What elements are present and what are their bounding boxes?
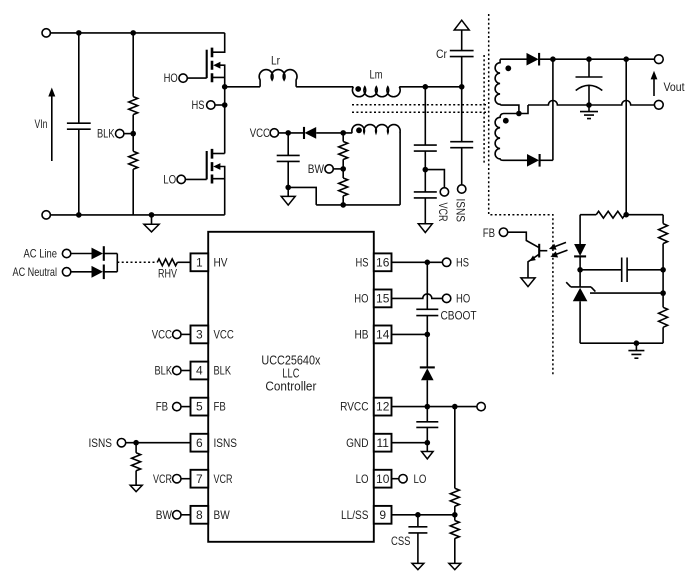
svg-text:3: 3: [196, 328, 203, 342]
terminal FB pin5: [173, 402, 181, 410]
wire FB bottom: [580, 342, 663, 344]
svg-text:10: 10: [376, 472, 390, 486]
diode LED opto: [574, 215, 586, 270]
terminal BW pin8: [173, 511, 181, 519]
svg-text:Lr: Lr: [271, 54, 280, 68]
wire aux bottom: [316, 204, 400, 206]
node LED cathode: [577, 267, 583, 273]
svg-text:RHV: RHV: [158, 267, 177, 281]
transistor Q2 low-side MOSFET: [185, 149, 224, 215]
svg-text:9: 9: [379, 508, 386, 522]
wire BLK pin4: [181, 370, 191, 372]
terminal ISNS left: [117, 439, 125, 447]
svg-text:12: 12: [376, 400, 390, 414]
capacitor VCR upper: [414, 87, 437, 192]
terminal VCR pin7: [173, 475, 181, 483]
terminal HO drive: [179, 74, 187, 82]
node A rectified top: [550, 56, 556, 62]
node ref right: [660, 290, 666, 296]
terminal FB opto: [499, 228, 507, 236]
drain: [212, 33, 225, 52]
svg-text:HV: HV: [214, 255, 228, 269]
node top-cap junction: [76, 30, 82, 36]
terminal BLK pin4: [173, 366, 181, 374]
terminal HS sense: [207, 101, 215, 109]
resistor FB divider lower: [659, 307, 668, 343]
wire FB supply vertical: [625, 59, 627, 215]
pin 8 BW box: [191, 506, 209, 524]
node FB top wire: [623, 212, 629, 218]
node resonant cap tap: [423, 84, 429, 90]
svg-text:GND: GND: [346, 436, 369, 450]
svg-text:BW: BW: [156, 508, 173, 522]
node output cap top: [586, 56, 592, 62]
node CSS branch: [415, 512, 421, 518]
node bottom-ground junction: [149, 212, 155, 218]
capacitor ISNS: [450, 87, 473, 185]
node VCC cap junction: [285, 130, 291, 136]
node comp cap right: [660, 267, 666, 273]
resistor BW lower: [339, 178, 348, 205]
node output cap bottom: [586, 102, 592, 108]
svg-text:BLK: BLK: [97, 127, 115, 141]
inductor Lm: [352, 87, 400, 97]
node HS sense: [222, 102, 228, 108]
transistor opto phototransistor: [508, 232, 548, 278]
isolation boundary dashed: [489, 14, 553, 375]
svg-text:VCR: VCR: [214, 472, 233, 486]
pin 12 RVCC box: [374, 398, 392, 416]
svg-text:HS: HS: [192, 98, 205, 112]
node RVCC: [425, 404, 431, 410]
resistor LL/SS lower: [450, 515, 459, 564]
wire top output rail: [553, 58, 655, 60]
pin 11 GND box: [374, 434, 392, 452]
wire diode join: [116, 254, 118, 272]
svg-text:CBOOT: CBOOT: [441, 309, 478, 323]
node FB ground: [634, 340, 640, 346]
ground opto emitter: [521, 278, 535, 287]
wire center tap to return rail: [519, 105, 528, 114]
lower secondary phase dot: [503, 118, 509, 124]
op-amp U1 UCC25640x body: [208, 232, 374, 542]
terminal VCR: [440, 188, 448, 196]
wire BW tap: [333, 168, 343, 170]
Vout arrow: [651, 71, 658, 96]
zener shunt regulator U3: [566, 270, 595, 343]
node BW divider bottom: [340, 202, 346, 208]
svg-text:11: 11: [376, 436, 389, 450]
svg-text:LL/SS: LL/SS: [341, 508, 369, 522]
terminal ISNS: [458, 185, 466, 193]
svg-text:VIn: VIn: [35, 117, 48, 131]
transistor Q1 high-side MOSFET: [187, 33, 224, 87]
Lm phase dot: [355, 86, 361, 92]
pin 5 FB box: [191, 398, 209, 416]
wire RHV to pin1: [177, 261, 190, 263]
svg-text:HS: HS: [456, 255, 469, 269]
node RVCC branch: [452, 404, 458, 410]
label IC title: [261, 353, 320, 394]
inductor Lr: [225, 70, 297, 87]
ground GND pin: [422, 443, 434, 459]
svg-text:VCC: VCC: [250, 126, 271, 140]
terminal Vin+: [42, 29, 50, 37]
ground LL/SS divider: [449, 563, 461, 569]
source: [212, 77, 225, 86]
diode D4 bootstrap: [420, 334, 435, 406]
capacitor bulk input: [67, 33, 91, 215]
node LL/SS divider: [452, 512, 458, 518]
wire switch node down: [224, 87, 226, 154]
svg-text:5: 5: [196, 400, 203, 414]
pin 4 BLK box: [191, 362, 209, 380]
svg-text:15: 15: [376, 292, 390, 306]
svg-text:ISNS: ISNS: [214, 436, 238, 450]
diode D5 line: [92, 246, 118, 261]
node center tap: [516, 111, 522, 117]
node Cr junction: [459, 84, 465, 90]
capacitor VCC bypass: [277, 133, 300, 188]
node ISNS filter: [133, 440, 139, 446]
pin 1 HV box: [191, 253, 209, 271]
svg-text:HO: HO: [456, 292, 470, 306]
ground ISNS filter: [130, 485, 142, 491]
winding aux BW: [352, 125, 400, 205]
svg-text:FB: FB: [483, 226, 495, 240]
resistor RHV: [157, 259, 177, 266]
wire Lr to Lm: [296, 86, 353, 88]
node top-BLK junction: [130, 30, 136, 36]
capacitor RVCC bypass: [416, 407, 438, 443]
wire bottom rail: [50, 214, 224, 216]
svg-text:HO: HO: [164, 71, 178, 85]
svg-text:Vout: Vout: [664, 80, 686, 94]
svg-text:LO: LO: [356, 472, 369, 486]
node switch: [222, 84, 228, 90]
svg-text:Controller: Controller: [265, 379, 317, 394]
wire BW pin8: [181, 514, 191, 516]
arrow Cr to bus: [454, 20, 469, 30]
svg-text:VCC: VCC: [214, 328, 235, 342]
node bottom-cap junction: [76, 212, 82, 218]
aux winding phase dot: [356, 127, 362, 133]
wire shunt ref: [590, 292, 663, 294]
pin 15 HO box: [374, 290, 392, 308]
svg-text:HO: HO: [354, 292, 368, 306]
terminal BW tap: [325, 165, 333, 173]
svg-text:Cr: Cr: [436, 47, 447, 61]
pin 14 HB box: [374, 326, 392, 344]
pin 9 LL/SS box: [374, 506, 392, 524]
svg-text:RVCC: RVCC: [340, 400, 369, 414]
wire AC Line: [71, 253, 92, 255]
capacitor CSS: [408, 515, 427, 564]
wire VCR pin7: [181, 478, 191, 480]
wire BLK tap: [124, 133, 133, 135]
ground earth output: [580, 105, 598, 119]
svg-text:LO: LO: [414, 472, 427, 486]
svg-text:ISNS: ISNS: [89, 436, 113, 450]
opto light arrows: [549, 242, 568, 257]
wire top rail: [50, 32, 224, 34]
node HB: [425, 332, 431, 338]
Vin arrow: [48, 88, 55, 162]
capacitor Cr: [450, 30, 474, 87]
svg-text:FB: FB: [156, 400, 168, 414]
ground VCC branch: [281, 187, 295, 205]
transformer core dashed: [483, 55, 485, 165]
gate lead from HO: [187, 77, 206, 79]
terminal LO right: [392, 475, 408, 483]
svg-text:FB: FB: [214, 400, 226, 414]
svg-text:CSS: CSS: [391, 534, 411, 548]
node VCR tap: [423, 167, 429, 173]
wire Lm to Cr: [399, 86, 461, 88]
wire pin14 HB: [392, 333, 428, 335]
gate bar: [206, 50, 208, 78]
wire AC Neutral: [71, 271, 92, 273]
terminal RVCC out: [477, 402, 485, 410]
svg-text:14: 14: [376, 328, 390, 342]
capacitor CBOOT: [416, 262, 438, 334]
wire pin16 HS out: [392, 261, 443, 263]
channel segments: [211, 48, 214, 83]
wire return rail with hops: [528, 101, 654, 106]
ground (primary bottom rail): [144, 215, 159, 232]
wire VCR tap: [425, 170, 444, 188]
wire pin9 LL/SS: [392, 514, 455, 516]
svg-text:VCR: VCR: [436, 203, 450, 222]
terminal Vout-: [654, 100, 663, 109]
wire VCC pin3: [181, 333, 191, 335]
diode D3 aux rectifier: [304, 127, 352, 139]
resistor FB divider upper: [659, 215, 668, 270]
svg-text:HS: HS: [356, 255, 369, 269]
terminal VCC aux: [270, 129, 278, 137]
wire node A down to D2: [552, 59, 554, 160]
wire VCC return to winding: [288, 187, 316, 205]
ground CSS: [412, 563, 424, 569]
resistor BW upper: [339, 133, 348, 178]
svg-text:BLK: BLK: [214, 364, 232, 378]
wire FB pin5: [181, 406, 191, 408]
wire pin11 GND: [392, 442, 428, 444]
svg-text:4: 4: [196, 364, 203, 378]
capacitor FB compensation: [580, 258, 663, 283]
terminal VCC pin3: [173, 330, 181, 338]
wire VCC to diode: [279, 132, 305, 134]
pin 6 ISNS box: [191, 434, 209, 452]
resistor BLK upper divider: [129, 33, 138, 115]
transformer coupling dashed lines: [352, 104, 487, 106]
svg-text:6: 6: [196, 436, 203, 450]
resistor ISNS filter: [132, 443, 141, 486]
svg-text:16: 16: [376, 255, 390, 269]
capacitor VCR lower: [414, 192, 437, 224]
svg-text:AC Neutral: AC Neutral: [13, 265, 58, 279]
winding secondary upper: [495, 59, 519, 113]
diode D2 secondary rectifier: [527, 154, 553, 167]
pin 7 VCR box: [191, 470, 209, 488]
terminal HS right: [442, 258, 450, 266]
wire divider mid: [662, 270, 664, 308]
svg-text:VCC: VCC: [152, 328, 173, 342]
node FB supply top: [623, 56, 629, 62]
pin 3 VCC box: [191, 326, 209, 344]
body arrow: [217, 65, 225, 77]
svg-text:1: 1: [196, 255, 203, 269]
pin 16 HS box: [374, 253, 392, 271]
terminal LO drive: [177, 175, 185, 183]
svg-text:AC Line: AC Line: [24, 247, 58, 261]
svg-text:8: 8: [196, 508, 203, 522]
terminal Vin-: [42, 211, 50, 219]
svg-text:BW: BW: [214, 508, 231, 522]
svg-text:Lm: Lm: [370, 68, 383, 82]
winding secondary lower: [495, 114, 527, 161]
ground VCR branch: [418, 224, 432, 233]
node BW divider top: [340, 130, 346, 136]
terminal Vout+: [654, 55, 663, 64]
wire dotted HV feed: [117, 261, 157, 263]
svg-text:VCR: VCR: [153, 472, 172, 486]
ground earth FB: [628, 343, 644, 358]
node BW tap: [340, 166, 346, 172]
wire pin12 RVCC: [392, 406, 477, 408]
node BLK tap: [130, 131, 136, 137]
resistor BLK lower divider: [129, 151, 138, 215]
terminal BLK tap: [116, 129, 124, 137]
wire HS: [215, 104, 225, 106]
terminal AC Neutral: [62, 268, 70, 276]
node HS bootstrap: [425, 260, 431, 266]
svg-text:7: 7: [196, 472, 203, 486]
svg-text:BLK: BLK: [155, 364, 173, 378]
node VCC cap bottom: [285, 185, 291, 191]
wire ISNS to pin6: [126, 442, 191, 444]
diode D6 neutral: [92, 265, 118, 280]
svg-text:ISNS: ISNS: [453, 199, 467, 223]
diode D1 secondary rectifier: [527, 53, 553, 66]
resistor LL/SS upper: [450, 407, 459, 515]
svg-text:BW: BW: [308, 162, 325, 176]
upper secondary phase dot: [505, 65, 511, 71]
resistor FB upper feed: [580, 211, 663, 218]
capacitor output polarized: [576, 59, 603, 105]
wire secondary top to D1: [500, 58, 526, 60]
svg-text:LO: LO: [163, 173, 176, 187]
svg-text:HB: HB: [355, 328, 369, 342]
terminal AC Line: [62, 249, 70, 257]
wire pin15 HO out with hop: [392, 294, 443, 299]
node GND pin: [425, 440, 431, 446]
wire BLK mid: [132, 115, 134, 152]
pin 10 LO box: [374, 470, 392, 488]
terminal HO right: [442, 294, 450, 302]
